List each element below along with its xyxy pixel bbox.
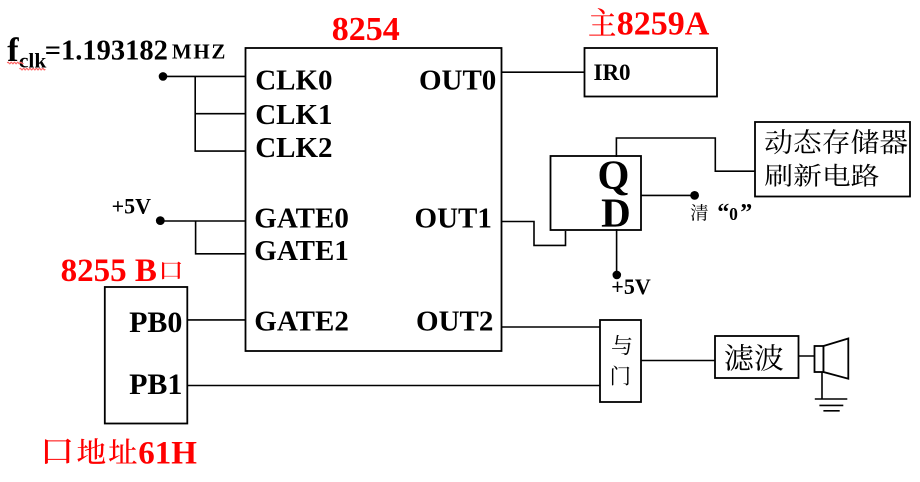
svg-text:61H: 61H: [138, 435, 197, 471]
svg-text:CLK2: CLK2: [255, 132, 332, 164]
svg-text:IR0: IR0: [594, 60, 631, 85]
svg-text:CLK0: CLK0: [255, 64, 332, 96]
svg-text:CLK1: CLK1: [255, 99, 332, 131]
svg-text:OUT0: OUT0: [419, 65, 496, 97]
svg-text:“: “: [717, 200, 729, 226]
svg-text:GATE2: GATE2: [254, 306, 349, 338]
svg-text:”: ”: [740, 200, 752, 226]
svg-text:GATE0: GATE0: [254, 203, 349, 235]
svg-text:D: D: [601, 190, 631, 236]
svg-text:GATE1: GATE1: [254, 235, 349, 267]
svg-text:+5V: +5V: [611, 274, 651, 299]
svg-text:=1.193182: =1.193182: [45, 35, 168, 66]
svg-text:+5V: +5V: [112, 193, 152, 218]
svg-text:PB1: PB1: [129, 368, 182, 401]
svg-text:8255 B: 8255 B: [61, 253, 157, 289]
svg-text:OUT2: OUT2: [416, 306, 493, 338]
svg-text:8259A: 8259A: [617, 6, 710, 43]
svg-text:0: 0: [729, 204, 738, 224]
svg-text:8254: 8254: [332, 11, 400, 48]
svg-text:PB0: PB0: [129, 306, 182, 339]
svg-text:OUT1: OUT1: [415, 203, 492, 235]
svg-text:MHZ: MHZ: [172, 40, 226, 64]
